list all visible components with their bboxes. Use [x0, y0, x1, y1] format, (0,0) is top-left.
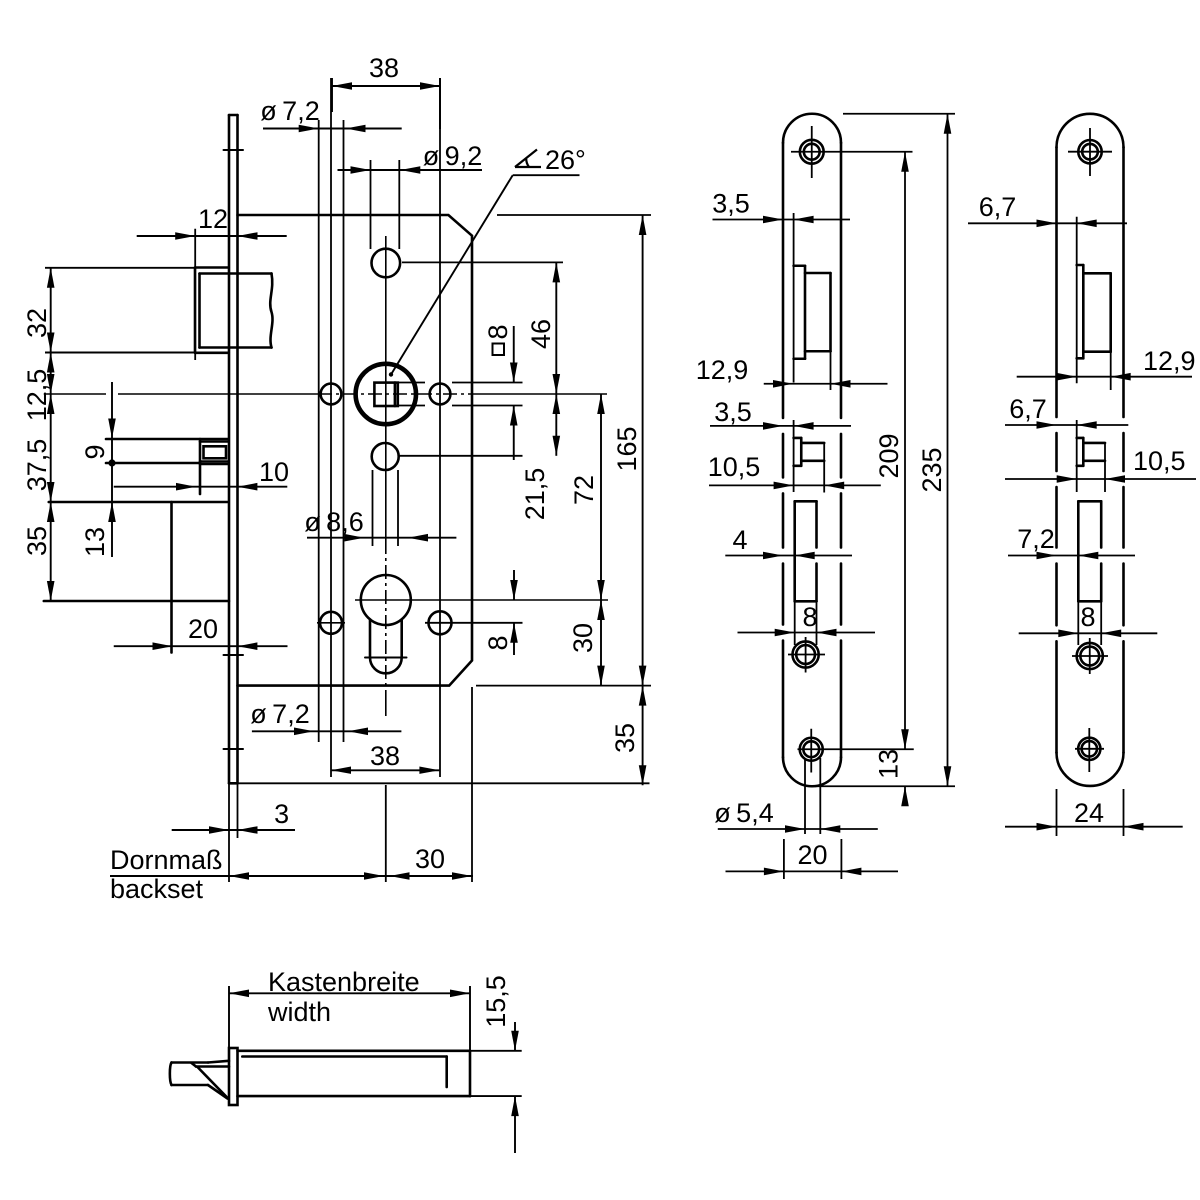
arrows square8: [510, 363, 518, 383]
arrows 3: [209, 826, 229, 834]
dimension 12: [137, 235, 287, 237]
svg-text:35: 35: [22, 526, 52, 556]
dimension 21.5 line: [555, 394, 557, 456]
svg-text:20: 20: [188, 614, 218, 644]
arrow 9 down and dot: [108, 419, 116, 439]
svg-text:12,9: 12,9: [696, 355, 749, 385]
arrows 8 plate1: [775, 629, 795, 637]
dimension 6.7 lower: [1005, 424, 1128, 426]
plate2 latch cutout: [1077, 265, 1111, 358]
svg-text:6,7: 6,7: [979, 192, 1017, 222]
dimension 8 plate1: [738, 632, 876, 634]
svg-text:12,5: 12,5: [22, 369, 52, 422]
dimension 12.9 plate1: [764, 383, 888, 385]
dimension square8 line: [513, 326, 515, 460]
arrows 20 left: [153, 642, 173, 650]
svg-text:13: 13: [80, 527, 110, 557]
arrows 165: [639, 215, 647, 235]
faceplate: [229, 115, 238, 783]
extension line lower holes level: [317, 622, 523, 624]
svg-text:3,5: 3,5: [714, 397, 752, 427]
extension line hole edge right: [343, 120, 345, 742]
plate2 extension cutout right: [1110, 352, 1112, 390]
dimension chain left 32 12.5 37.5 35: [45, 268, 195, 601]
plate2 extension lip line upper: [1076, 217, 1078, 384]
dimension 38 bottom: [331, 769, 439, 771]
arrows 24: [1037, 823, 1057, 831]
dimension 3: [172, 829, 295, 831]
svg-text:ø 9,2: ø 9,2: [423, 141, 482, 171]
dimension 15.5 lines: [465, 1022, 522, 1153]
svg-text:30: 30: [568, 623, 598, 653]
main view arrowheads: [47, 82, 647, 880]
arrows d5.4: [785, 825, 805, 833]
svg-text:35: 35: [610, 723, 640, 753]
arrows 10.5 plate1: [774, 482, 794, 490]
svg-text:235: 235: [917, 447, 947, 492]
dimension 46 line: [555, 262, 557, 394]
dimension backset 30 line: [110, 875, 473, 877]
dimension 3.5 upper: [713, 219, 851, 221]
extension line cylinder centre level: [355, 599, 608, 601]
plate2 middle screw hole: [1077, 643, 1103, 669]
arrows 15.5: [511, 1031, 519, 1051]
arrows 30 bottom: [390, 872, 410, 880]
leader dot 26: [389, 372, 393, 376]
arrows 235: [944, 114, 952, 134]
svg-text:4: 4: [732, 525, 747, 555]
plate1 bottom hole centre lines: [798, 729, 914, 773]
plate2 extension lip line lower: [1076, 420, 1078, 492]
dimension Kastenbreite line: [229, 986, 470, 1051]
svg-text:209: 209: [874, 433, 904, 478]
dimension 8 right line: [513, 570, 515, 655]
extension line cylinder axis below: [385, 785, 387, 882]
dimension 30 right line: [600, 600, 602, 686]
dimension 6.7 upper: [968, 222, 1127, 224]
svg-text:72: 72: [569, 475, 599, 505]
svg-text:38: 38: [369, 53, 399, 83]
plate2 extension aux right: [1104, 443, 1106, 492]
svg-text:8: 8: [483, 324, 513, 339]
bottom view case body: [238, 1051, 471, 1096]
dimension d5.4: [718, 758, 878, 834]
svg-text:26°: 26°: [545, 145, 586, 175]
arrows 6.7 upper: [1037, 220, 1057, 228]
arrows 7.2 plate2: [1037, 552, 1057, 560]
svg-text:7,2: 7,2: [1017, 524, 1055, 554]
arrows 38 top: [332, 82, 352, 90]
extension plate1 bottom: [815, 785, 955, 787]
arrows 6.7 lower: [1037, 421, 1057, 429]
dimension 8 plate2: [1019, 632, 1158, 634]
arrows 12.9 plate2: [1057, 373, 1077, 381]
hole d7.2 lower left: [320, 612, 342, 634]
arrows backset: [229, 872, 249, 880]
plate1 deadbolt slot: [795, 501, 817, 601]
main view texts: [22, 53, 642, 904]
svg-text:backset: backset: [110, 874, 204, 904]
svg-text:6,7: 6,7: [1009, 394, 1047, 424]
plate2 aux cutout: [1077, 438, 1105, 466]
dimension 9 and 13 line: [111, 382, 113, 557]
svg-text:12: 12: [198, 204, 228, 234]
latch bolt break squiggle: [270, 274, 272, 348]
dimension d9.2: [338, 169, 483, 171]
svg-text:3: 3: [274, 799, 289, 829]
svg-text:9: 9: [80, 444, 110, 459]
plate2 outline: [1057, 114, 1124, 786]
svg-text:10: 10: [259, 457, 289, 487]
arrows d8.6: [344, 534, 364, 542]
dimension 3.5 lower: [710, 425, 851, 427]
follower ring: [356, 364, 416, 424]
plate1 top screw hole: [800, 140, 824, 164]
plate1 extension lip line upper: [793, 213, 795, 383]
svg-text:37,5: 37,5: [22, 439, 52, 492]
arrow 13 up: [108, 502, 116, 522]
extension line top hole centre level: [402, 261, 563, 263]
lock case outline: [238, 215, 473, 686]
extension line latch face: [194, 229, 196, 360]
hole d7.2 upper left: [321, 384, 342, 405]
plate2 deadbolt slot: [1078, 501, 1101, 601]
plate1 outline: [783, 114, 841, 787]
svg-text:Dornmaß: Dornmaß: [110, 845, 223, 875]
plate1 extension aux right: [823, 443, 825, 493]
deadbolt: [44, 502, 229, 653]
arrows 8 right: [510, 580, 518, 600]
dimension 20 left: [114, 645, 288, 647]
arrows 3.5 lower: [763, 422, 783, 430]
plate1 middle hole centre lines: [788, 637, 825, 673]
svg-text:8: 8: [802, 602, 817, 632]
extension line plate back below: [237, 783, 239, 838]
dimension 165 line: [642, 215, 644, 686]
extension line case top right: [497, 214, 651, 216]
arrows 10.5 plate2: [1057, 475, 1077, 483]
bottom view latch bolt: [170, 1061, 229, 1099]
arrows 46: [553, 262, 561, 282]
svg-text:21,5: 21,5: [520, 468, 550, 521]
arrows Kastenbreite: [229, 990, 249, 998]
extension lines square8: [398, 383, 523, 406]
svg-text:32: 32: [22, 308, 52, 338]
arrows 4: [763, 552, 783, 560]
svg-text:10,5: 10,5: [708, 452, 761, 482]
arrows 3.5 upper: [763, 216, 783, 224]
dimension d7.2 bottom: [252, 730, 402, 732]
extension plate1 top: [843, 113, 955, 115]
arrows 38 bottom: [331, 767, 351, 774]
arrows 20 plate1: [764, 868, 784, 876]
arrows 12.9 plate1: [773, 380, 793, 388]
svg-text:13: 13: [874, 749, 904, 779]
hole d8.6 below follower: [372, 443, 399, 470]
dimension 35 bottom right line: [642, 686, 644, 786]
arrows 8 plate2: [1058, 630, 1078, 638]
hole d9.2 top: [372, 249, 401, 278]
arrows 21.5: [553, 394, 561, 414]
plate1 top hole centre lines: [791, 126, 913, 178]
svg-text:ø 7,2: ø 7,2: [250, 699, 309, 729]
plate2 bottom hole centre lines: [1075, 728, 1104, 772]
svg-text:46: 46: [526, 319, 556, 349]
dimension 24: [1005, 789, 1183, 836]
cylinder hole euro profile: [361, 575, 411, 673]
plate2 bottom screw hole: [1078, 738, 1100, 760]
arrows 209: [901, 152, 909, 172]
dimension 235 line: [947, 114, 949, 787]
dimension 10.5 plate1: [709, 484, 881, 486]
extension line right hole centre: [439, 78, 441, 777]
plate1 middle screw hole: [793, 641, 819, 667]
svg-text:ø 7,2: ø 7,2: [260, 96, 319, 126]
plate1 latch cutout: [794, 266, 831, 359]
dimension 13 plate1 line: [904, 786, 906, 806]
svg-text:3,5: 3,5: [712, 189, 750, 219]
plate1 bottom screw hole: [800, 738, 823, 761]
follower square 8: [374, 383, 397, 406]
dimension 209 line: [904, 152, 906, 750]
extension line plate front below: [228, 783, 230, 882]
svg-text:8: 8: [1080, 602, 1095, 632]
svg-text:ø 8,6: ø 8,6: [304, 507, 363, 537]
dimension 12.9 plate2: [1017, 376, 1192, 378]
plate2 top hole centre lines: [1068, 128, 1112, 176]
arrows 10: [176, 483, 196, 491]
centre line horizontal follower axis: [44, 393, 607, 395]
faceplate break tick low: [224, 748, 244, 750]
dimension d7.2 top: [263, 128, 402, 130]
extension line d8.6 centre level: [399, 455, 523, 457]
dimension 10: [114, 486, 288, 488]
svg-text:24: 24: [1074, 798, 1104, 828]
svg-text:20: 20: [797, 840, 827, 870]
arrows 13 plate1: [901, 729, 909, 749]
extension lines d8.6: [373, 470, 399, 546]
extension line plate bottom: [229, 782, 650, 784]
dimension d8.6 line: [307, 537, 456, 539]
svg-text:10,5: 10,5: [1133, 446, 1186, 476]
arrows d7.2 bottom: [294, 728, 314, 736]
hole d8 lower right: [429, 611, 452, 634]
dimension 38 top: [332, 78, 440, 129]
arrows 35 bottom right: [639, 686, 647, 706]
arrows 12: [175, 232, 195, 240]
arrows d7.2 top: [299, 125, 319, 133]
extension lines d9.2: [371, 160, 400, 249]
latch bolt head: [195, 268, 272, 353]
svg-text:12,9: 12,9: [1143, 346, 1196, 376]
faceplate break tick top: [224, 149, 244, 151]
plate1 aux cutout: [794, 438, 825, 466]
plate2 extension slot edges: [1078, 601, 1101, 645]
arrows 30 right: [597, 600, 605, 620]
text square8: [483, 324, 513, 355]
extension line hole edge left: [318, 120, 320, 742]
guide pin: [106, 439, 229, 494]
plate2 top screw hole: [1078, 140, 1101, 163]
svg-text:30: 30: [415, 844, 445, 874]
extension line case bottom right: [476, 685, 651, 687]
main view thin centre/extension lines: [44, 78, 651, 882]
dimension 4: [725, 555, 852, 557]
dimension 7.2 plate2: [1008, 555, 1135, 557]
angle symbol: [515, 150, 541, 168]
svg-text:width: width: [267, 997, 331, 1027]
arrows left chain: [47, 268, 55, 288]
svg-text:Kastenbreite: Kastenbreite: [268, 967, 420, 997]
main view dimensions: [45, 78, 643, 876]
svg-text:38: 38: [370, 741, 400, 771]
svg-text:8: 8: [483, 635, 513, 650]
svg-text:15,5: 15,5: [481, 975, 511, 1028]
extension line hole centre left: [330, 78, 332, 777]
dimension 72 line: [600, 394, 602, 600]
plate2 middle hole centre lines: [1072, 638, 1108, 674]
svg-text:ø 5,4: ø 5,4: [714, 798, 773, 828]
bottom view faceplate: [229, 1048, 238, 1105]
dimension 10.5 plate2: [1005, 478, 1196, 480]
centre line vertical main axis: [385, 236, 387, 540]
extension line case right below: [471, 687, 473, 882]
plate1 extension slot edges: [795, 601, 817, 645]
angle 26 leader: [391, 175, 580, 374]
arrows d9.2: [351, 166, 371, 174]
faceplate break tick mid: [224, 654, 244, 656]
arrows 72: [597, 394, 605, 414]
svg-text:165: 165: [612, 426, 642, 471]
hole d7.2 upper right: [430, 384, 451, 405]
plate1 extension cutout right: [830, 351, 832, 390]
dimension 20 plate1: [726, 839, 899, 879]
plate1 extension lip line lower: [793, 420, 795, 492]
